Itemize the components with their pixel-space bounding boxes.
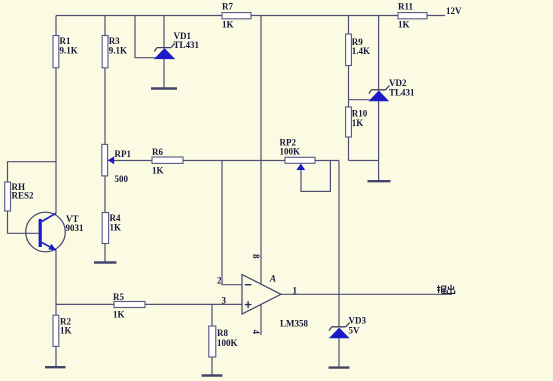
wire TL431 VD2 reference tap (349, 99, 370, 101)
node output label 输出 (437, 285, 455, 294)
potentiometer RP2 wiper arrow (296, 164, 305, 171)
resistor R2 (53, 315, 59, 346)
resistor R10 (346, 107, 352, 137)
svg-text:1K: 1K (60, 326, 72, 336)
wire emitter down to node (55, 250, 57, 304)
wire VD3 column vertical (338, 161, 340, 327)
svg-text:100K: 100K (280, 147, 301, 157)
resistor R7 (222, 13, 251, 19)
wire op-amp output pin1 (281, 293, 452, 295)
svg-text:1K: 1K (113, 310, 125, 320)
zener diode VD3 5V (329, 323, 350, 338)
wire R8 drop (211, 304, 213, 375)
resistor R1 (53, 36, 59, 68)
wire VD2 cathode drop (378, 16, 380, 90)
svg-text:9031: 9031 (66, 223, 85, 233)
wire RP2 wiper loop (301, 161, 330, 192)
wire VD1 reference tap (135, 16, 155, 58)
wire R9 R10 branch vertical (348, 16, 350, 161)
wire node to op-amp pin3 through R5 (56, 303, 242, 305)
svg-text:500: 500 (115, 174, 129, 184)
ground R8 (202, 374, 223, 376)
transistor Q VT 9031 (26, 212, 66, 252)
svg-text:1K: 1K (398, 20, 410, 30)
svg-text:TL431: TL431 (174, 40, 200, 50)
wire VD1 anode to ground (163, 59, 165, 88)
wire VD2 anode to ground (378, 101, 380, 181)
wire R3/RP1/R4 branch vertical (104, 16, 106, 262)
svg-text:A: A (269, 274, 276, 284)
wire op-amp pin8 drop (260, 16, 262, 284)
svg-text:VD2: VD2 (389, 78, 407, 88)
svg-text:3: 3 (222, 296, 227, 306)
svg-text:R7: R7 (222, 2, 233, 12)
wire mid rail RP1 wiper to RP2 (108, 160, 285, 162)
ground R2 (45, 366, 66, 368)
wire R10 bottom to VD2 anode line (349, 160, 379, 162)
wire R1 branch vertical (55, 16, 57, 214)
ground VD2 (368, 180, 391, 182)
zener diode VD1 TL431 (154, 43, 175, 58)
resistor R11 (398, 13, 427, 19)
svg-text:1K: 1K (110, 223, 122, 233)
svg-text:12V: 12V (446, 6, 462, 16)
wire RP2 right to VD3 column (315, 160, 339, 162)
svg-text:2: 2 (217, 276, 222, 286)
op-amp U1 LM358 (242, 275, 281, 315)
svg-text:1.4K: 1.4K (352, 46, 370, 56)
svg-text:9.1K: 9.1K (109, 46, 127, 56)
svg-text:100K: 100K (217, 338, 238, 348)
svg-text:1K: 1K (152, 166, 164, 176)
wire RH bottom to base (8, 211, 39, 233)
svg-text:RP1: RP1 (115, 149, 132, 159)
svg-text:LM358: LM358 (280, 319, 308, 329)
ground VD1 (151, 87, 177, 89)
svg-text:8: 8 (251, 254, 261, 259)
wire RH top jog (8, 162, 57, 182)
svg-text:R8: R8 (217, 328, 228, 338)
wire VD3 anode to ground (338, 338, 340, 367)
ground VD3 (329, 366, 350, 368)
svg-text:4: 4 (251, 330, 261, 335)
ground R4 (94, 261, 117, 263)
svg-text:5V: 5V (349, 326, 361, 336)
svg-text:1K: 1K (352, 118, 364, 128)
svg-text:TL431: TL431 (389, 88, 415, 98)
svg-text:R11: R11 (398, 2, 414, 12)
svg-text:R4: R4 (110, 213, 121, 223)
wire top rail 12V (56, 15, 445, 17)
svg-text:RES2: RES2 (12, 191, 35, 201)
svg-text:R5: R5 (113, 292, 124, 302)
potentiometer RP2 body (285, 157, 315, 163)
resistor R8 (209, 326, 216, 357)
resistor R3 (102, 36, 108, 68)
wire R2 to ground (55, 304, 57, 366)
resistor R5 (114, 302, 145, 308)
resistor RH body (5, 182, 11, 211)
svg-text:R10: R10 (352, 109, 368, 119)
resistor R4 (102, 213, 108, 244)
svg-text:VD3: VD3 (349, 316, 367, 326)
svg-text:1: 1 (293, 286, 298, 296)
potentiometer RP1 body (102, 144, 108, 176)
resistor R6 (152, 157, 183, 163)
svg-text:R6: R6 (152, 147, 163, 157)
potentiometer RP1 wiper arrow (108, 156, 114, 164)
svg-text:9.1K: 9.1K (60, 46, 78, 56)
svg-text:R3: R3 (109, 36, 120, 46)
zener diode VD2 TL431 (369, 86, 390, 101)
wire op-amp pin4 stub (260, 304, 262, 335)
svg-text:R1: R1 (60, 36, 71, 46)
svg-text:1K: 1K (222, 20, 234, 30)
wire op-amp pin2 branch (222, 161, 242, 285)
wire VD1 cathode drop (163, 16, 165, 48)
resistor R9 (346, 34, 352, 66)
